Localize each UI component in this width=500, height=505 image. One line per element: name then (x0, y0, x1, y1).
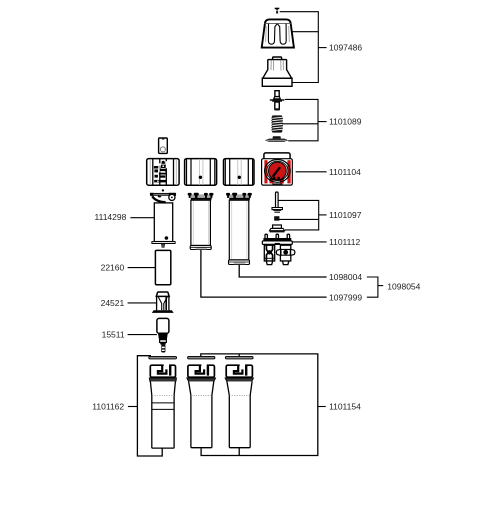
washer disc (1101089 part c) (265, 136, 288, 142)
finger groove right (277, 24, 286, 44)
filter housing for 1098004 (column 3) (226, 193, 252, 265)
SECTION: group 1101112 (262, 234, 326, 264)
SECTION: left small parts (128, 245, 174, 352)
gauge bezel rings (265, 160, 291, 183)
screw S1 (top of handle) (275, 8, 280, 14)
locking bar 3 (225, 356, 253, 359)
cartridge 3 bottom stub (238, 448, 240, 456)
wire to 1114298 (130, 217, 154, 219)
callout wire 1101104 (296, 171, 327, 173)
filter housing for 1097999 (column 2) (188, 193, 214, 250)
kit box 1101162 outline (137, 356, 162, 456)
svg-text:1101112: 1101112 (329, 237, 360, 247)
wire to 1101162 (128, 406, 137, 408)
svg-text:1101104: 1101104 (329, 167, 361, 177)
right valve body with wing handle (276, 245, 295, 264)
wire to 15511 (128, 334, 157, 336)
gauge module body (262, 159, 293, 185)
SECTION: module row (147, 138, 254, 185)
svg-text:24521: 24521 (101, 298, 125, 308)
gauge red dial (269, 162, 287, 180)
top plate (150, 193, 175, 195)
finger groove left (268, 24, 277, 44)
locking bar 2 (188, 356, 215, 359)
filter sleeve 22160 (155, 245, 170, 284)
callout wires 1097486 (280, 12, 327, 83)
wire to 24521 (128, 302, 157, 304)
venturi insert 24521 (152, 292, 174, 313)
SECTION: cylinder row (130, 189, 326, 297)
module C dot (238, 176, 241, 179)
seal square (1101097 part b) (275, 217, 279, 221)
SECTION: labels (92, 43, 420, 412)
bottom cap (229, 260, 250, 265)
SECTION: group 1101089 (265, 91, 327, 142)
bottom tab (272, 183, 282, 185)
mounting bracket above module A (159, 138, 168, 153)
callout wires 1101097 (278, 200, 326, 230)
lever swoosh (152, 196, 165, 202)
handle bonnet (1097486 part b) (262, 57, 292, 86)
spring (1101089 part b) (271, 115, 283, 132)
head fittings (229, 194, 249, 197)
cap (1101097 part c) (270, 225, 285, 232)
svg-text:1114298: 1114298 (95, 212, 127, 222)
cartridge 3 (225, 364, 253, 448)
manifold flange (262, 241, 292, 245)
bracket 1098054 (367, 277, 383, 297)
wire to 1101154 (318, 406, 326, 408)
bottom cap (190, 246, 211, 250)
wire to 22160 (128, 267, 156, 269)
callout wire 1101112 (292, 241, 326, 243)
SECTION: group 1101104 (262, 153, 327, 186)
module B dot (199, 176, 202, 179)
manifold top bar (263, 238, 291, 241)
callout wires 1101089 (282, 99, 326, 140)
valve module A (with internals) (147, 159, 179, 186)
cartridge 2 (187, 364, 216, 448)
locking bar 1 (149, 356, 177, 359)
kit box 1101154 outline (201, 354, 318, 456)
svg-text:1101162: 1101162 (92, 402, 124, 412)
svg-text:1098054: 1098054 (387, 281, 420, 291)
wire to 1097999 (201, 250, 327, 298)
gauge module cap (264, 153, 290, 159)
svg-text:1097486: 1097486 (329, 43, 362, 53)
lubricant bottle 15511 (157, 318, 169, 352)
valve module B (185, 159, 217, 186)
head fittings (191, 194, 211, 197)
cartridge 1 (1101162) (149, 364, 176, 448)
manifold prongs (265, 234, 290, 238)
SECTION: bottom boxes (128, 354, 326, 456)
wire to 1098004 (239, 265, 326, 277)
svg-text:22160: 22160 (101, 263, 125, 273)
left valve body (264, 245, 274, 264)
red side bars (264, 160, 290, 183)
svg-text:15511: 15511 (102, 330, 125, 340)
valve poppet (1101089 part a) (270, 91, 285, 111)
valve module C (224, 159, 255, 186)
svg-text:1097999: 1097999 (329, 292, 362, 302)
filter housing 1114298 (150, 189, 176, 247)
svg-text:1101154: 1101154 (329, 402, 361, 412)
gauge needle (269, 178, 272, 181)
svg-text:1098004: 1098004 (329, 272, 362, 282)
bottom cap (152, 242, 175, 244)
body (191, 200, 211, 245)
pin (1101097 part a) (272, 192, 282, 213)
screw dot (162, 189, 164, 191)
svg-text:1101089: 1101089 (329, 117, 362, 127)
body (229, 200, 249, 260)
SECTION: top group 1097486 (262, 8, 327, 87)
body (154, 203, 172, 242)
box stub to cartridge 3 bar (238, 354, 240, 356)
ring (169, 194, 175, 200)
gauge screws (273, 177, 276, 180)
svg-text:1101097: 1101097 (329, 210, 362, 220)
module A internals (154, 161, 167, 183)
SECTION: group 1101097 (270, 192, 327, 232)
handle knob (1097486 part a) (262, 19, 294, 47)
